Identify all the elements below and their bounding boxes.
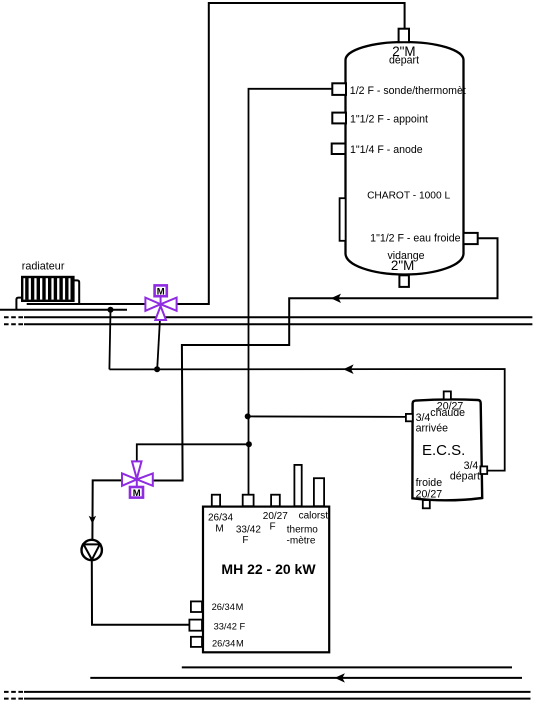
tank T1 anode nozzle <box>332 144 346 155</box>
svg-text:radiateur: radiateur <box>22 260 65 272</box>
arrow A1 flow left on eau froide run <box>331 294 341 303</box>
tank T2 arrivee nozzle <box>406 414 413 421</box>
wire main header y=324 dashed start <box>4 323 23 325</box>
boiler nozzle 26/34 M left upper <box>191 601 202 612</box>
node J3 on main drop to ECS arrivee <box>245 413 251 419</box>
svg-text:26/34 M: 26/34 M <box>212 602 244 612</box>
boiler nozzle 20/27 F top <box>271 495 280 507</box>
boiler calorstat well <box>294 465 301 506</box>
svg-text:CHAROT - 1000 L: CHAROT - 1000 L <box>367 190 450 201</box>
tank T1 vidange nozzle <box>399 275 409 287</box>
svg-text:M: M <box>157 287 165 298</box>
node J1 on radiator return <box>108 307 114 313</box>
wire drop from J1 to lower header <box>109 310 110 370</box>
radiator R1 body <box>22 277 73 301</box>
wire radiator return line y=309.7 <box>0 309 127 311</box>
svg-text:MH 22 - 20 kW: MH 22 - 20 kW <box>221 561 316 577</box>
node J4 on main drop to valve V2 top <box>246 441 252 447</box>
wire valve V2 left port to pump P1 and boiler 33/42F <box>92 480 121 539</box>
wire bottom header y=698.6 dashed start <box>4 698 23 700</box>
tank T2 top nozzle <box>444 391 451 399</box>
wire main header y=317 dashed start <box>4 316 23 318</box>
tank T1 CHAROT 1000L body <box>346 42 464 275</box>
valve V1 right wing <box>161 298 177 311</box>
svg-text:M: M <box>215 524 223 535</box>
wire main header y=317 <box>24 316 532 318</box>
valve V1 stem <box>160 297 162 305</box>
svg-text:calorst: calorst <box>299 510 329 521</box>
tank T1 appoint nozzle <box>332 113 346 124</box>
boiler nozzle 33/42 F left <box>189 620 202 631</box>
tank T1 top nozzle 2"M depart <box>399 29 409 43</box>
wire bottom header y=692 dashed start <box>4 691 23 693</box>
wire radiator right pipe <box>74 280 80 304</box>
svg-text:33/42: 33/42 <box>236 524 261 535</box>
valve V2 stem <box>136 479 138 487</box>
svg-text:1"1/2 F - appoint: 1"1/2 F - appoint <box>350 114 428 126</box>
wire radiator left pipe <box>16 298 22 310</box>
wire lower header y=369 to ECS depart nozzle <box>109 369 504 471</box>
wire valve V2 top stem across to main drop <box>137 444 249 460</box>
tank T2 depart nozzle <box>480 466 487 474</box>
wire pump outlet down and right to boiler 33/42F left <box>92 560 190 625</box>
wire bottom return L2 <box>90 677 522 679</box>
valve V1 M box <box>155 285 167 296</box>
tank T2 bottom nozzle <box>423 500 430 508</box>
wire bottom header y=692 <box>24 691 531 693</box>
svg-text:1/2 F - sonde/thermomèt: 1/2 F - sonde/thermomèt <box>350 85 466 97</box>
tank T1 eau froide nozzle <box>464 233 478 244</box>
svg-text:thermo: thermo <box>287 525 319 536</box>
wire sonde: tank sonde nozzle left then main drop to boiler 33/42F <box>249 89 333 496</box>
wire ECS arrivee from main drop <box>249 415 407 418</box>
wire bottom header y=698.6 <box>24 698 531 700</box>
svg-text:2"M: 2"M <box>391 258 414 273</box>
svg-text:26/34 M: 26/34 M <box>212 638 244 648</box>
wire top: valve V1 right port up and across to tank departure nozzle <box>177 3 404 304</box>
svg-text:chaude: chaude <box>430 407 465 419</box>
tank T1 sonde nozzle <box>332 83 346 95</box>
wire radiator supply line y=304 <box>27 303 145 305</box>
valve V1 motorised 3-way <box>145 285 176 320</box>
svg-text:1"1/4 F - anode: 1"1/4 F - anode <box>350 144 423 156</box>
tank T1 level gauge bracket <box>340 198 346 241</box>
svg-text:froide: froide <box>416 477 443 489</box>
svg-text:E.C.S.: E.C.S. <box>422 442 465 459</box>
tank T2 ECS body <box>412 399 482 500</box>
wire valve V1 bottom stem down to J2 <box>157 321 160 369</box>
boiler nozzle 26/34 M left lower <box>191 637 202 647</box>
arrow A4 flow down to pump <box>89 516 96 524</box>
svg-text:F: F <box>270 521 276 532</box>
wire eau froide: tank right nozzle down-left to valve V2 right port <box>153 238 497 480</box>
valve V2 left wing <box>122 473 137 485</box>
wire main header y=324 <box>24 323 532 325</box>
svg-text:départ: départ <box>450 471 480 483</box>
svg-text:20/27: 20/27 <box>263 511 288 522</box>
svg-text:M: M <box>133 488 141 499</box>
arrow A3 flow left on L2 <box>335 673 345 682</box>
valve V1 left wing <box>145 298 160 311</box>
pump P1 <box>82 540 102 560</box>
boiler nozzle 33/42 F top <box>243 495 254 507</box>
boiler nozzle 26/34 M top <box>212 495 220 507</box>
wire bottom return L1 <box>182 666 512 668</box>
svg-text:-mètre: -mètre <box>287 536 316 547</box>
boiler B1 MH22 body <box>203 507 329 653</box>
svg-text:F: F <box>242 535 248 546</box>
svg-text:20/27: 20/27 <box>416 488 443 500</box>
valve V2 M box <box>130 487 143 498</box>
svg-text:1"1/2 F - eau froide: 1"1/2 F - eau froide <box>370 232 460 244</box>
arrow A2 flow left on lower header <box>343 364 353 374</box>
valve V1 bottom wing <box>155 306 166 320</box>
valve V2 right wing <box>137 473 153 485</box>
svg-text:arrivée: arrivée <box>416 423 448 435</box>
valve V2 top wing <box>132 461 142 478</box>
boiler thermometre well <box>314 478 324 506</box>
svg-text:33/42 F: 33/42 F <box>214 621 246 631</box>
svg-text:départ: départ <box>389 55 419 67</box>
valve V2 motorised 3-way <box>122 461 153 499</box>
node J2 valve V1 drop joins lower header <box>154 366 160 372</box>
svg-text:26/34: 26/34 <box>208 513 233 524</box>
